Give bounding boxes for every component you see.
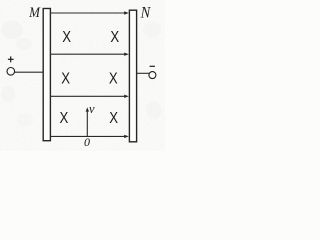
right terminal circle bbox=[149, 72, 156, 79]
wire L1 with arrow bbox=[50, 11, 129, 14]
svg-text:X: X bbox=[110, 29, 119, 46]
svg-text:X: X bbox=[61, 70, 70, 87]
wire left terminal to plate M bbox=[15, 71, 44, 73]
wire L4 with arrow bbox=[50, 135, 129, 138]
svg-text:N: N bbox=[140, 4, 152, 21]
left terminal circle bbox=[7, 68, 15, 76]
svg-text:0: 0 bbox=[84, 135, 90, 149]
svg-text:X: X bbox=[109, 110, 118, 127]
svg-text:M: M bbox=[28, 5, 41, 21]
svg-text:v: v bbox=[89, 102, 95, 116]
svg-text:X: X bbox=[109, 70, 118, 87]
velocity arrow v bbox=[86, 107, 89, 136]
wire L2 with arrow bbox=[50, 53, 129, 56]
plate M bbox=[43, 9, 50, 141]
plus sign bbox=[8, 56, 14, 62]
wire L3 with arrow bbox=[50, 95, 129, 98]
plate N bbox=[129, 10, 136, 142]
svg-text:X: X bbox=[60, 110, 69, 127]
wire plate N to right terminal bbox=[137, 72, 149, 74]
minus sign bbox=[150, 65, 155, 67]
svg-text:X: X bbox=[62, 29, 71, 46]
